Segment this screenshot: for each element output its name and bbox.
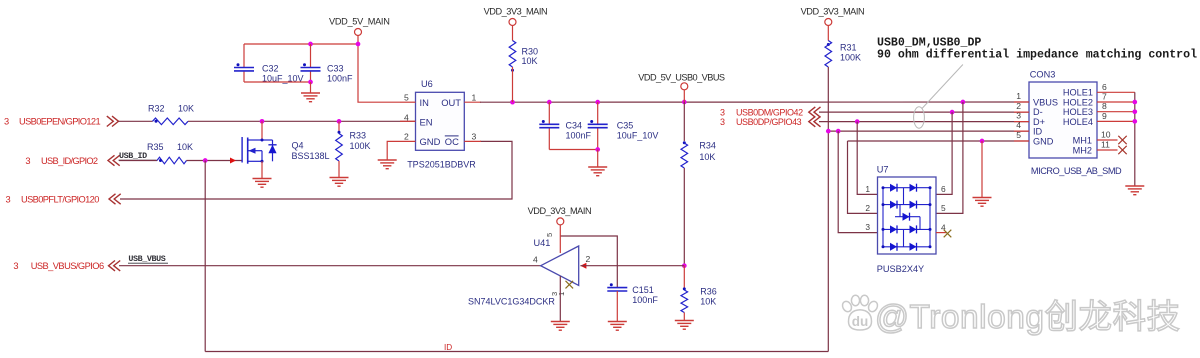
- ground U6: [378, 160, 397, 169]
- junction USB_ID node: [203, 158, 208, 163]
- ground C32/C33: [301, 93, 320, 102]
- wire USB0DM to CON3 D-: [819, 111, 1029, 113]
- diff-pair ellipse: [914, 107, 925, 128]
- no-connect U41 pin1: [566, 281, 574, 289]
- svg-text:GND: GND: [1033, 136, 1054, 146]
- wire ID row to CON3: [828, 130, 1029, 132]
- svg-text:3: 3: [4, 116, 9, 126]
- pin CON3 3 stub: [1014, 121, 1029, 123]
- pin CON3 MH1 stub: [1097, 139, 1118, 141]
- ground Q4: [253, 179, 272, 188]
- wire cap top bus: [244, 43, 358, 45]
- wire ID to U7 pin3: [838, 131, 877, 233]
- transistor Q4: [241, 137, 243, 163]
- junction cap bottom: [308, 80, 313, 85]
- pin U6 IN stub: [400, 101, 416, 103]
- junction C34: [547, 100, 552, 105]
- svg-text:du: du: [852, 314, 869, 329]
- svg-text:D+: D+: [1033, 117, 1045, 127]
- svg-text:R34: R34: [699, 140, 716, 150]
- svg-text:USB0DM/GPIO42: USB0DM/GPIO42: [736, 108, 803, 118]
- svg-text:VDD_3V3_MAIN: VDD_3V3_MAIN: [484, 7, 548, 17]
- ground C151: [608, 322, 627, 331]
- svg-text:USB0PFLT/GPIO120: USB0PFLT/GPIO120: [21, 195, 99, 205]
- svg-text:10K: 10K: [699, 152, 715, 162]
- wire Q4 source to ground: [261, 161, 263, 178]
- svg-text:BSS138L: BSS138L: [292, 151, 330, 161]
- svg-text:5: 5: [545, 233, 554, 237]
- svg-text:GND: GND: [420, 136, 441, 147]
- svg-text:100nF: 100nF: [327, 74, 353, 84]
- pin arrow U41 input: [580, 263, 586, 269]
- junction C35 bottom: [595, 147, 600, 152]
- svg-text:3: 3: [865, 222, 870, 232]
- svg-text:EN: EN: [420, 117, 433, 128]
- wire VDD_5V_MAIN down to U6 IN: [358, 36, 400, 103]
- svg-text:1: 1: [865, 184, 870, 194]
- wire DM to U7 pin6: [936, 112, 952, 194]
- resistor R30: [512, 26, 514, 41]
- svg-text:U41: U41: [534, 238, 551, 248]
- svg-text:R35: R35: [147, 142, 164, 152]
- wire GND to U7 pin2: [848, 141, 878, 213]
- svg-text:2: 2: [865, 203, 870, 213]
- svg-text:USB0_DM,USB0_DP: USB0_DM,USB0_DP: [877, 36, 981, 49]
- pin CON3 MH2 stub: [1097, 149, 1118, 151]
- svg-text:HOLE3: HOLE3: [1063, 107, 1093, 117]
- wire C34 leads: [548, 102, 550, 124]
- svg-text:100K: 100K: [840, 53, 861, 63]
- svg-text:3: 3: [6, 195, 11, 205]
- svg-text:@Tronlong创龙科技: @Tronlong创龙科技: [875, 299, 1180, 336]
- capacitor C32: [234, 67, 254, 69]
- wire U6 OUT to CON3 VBUS: [480, 101, 1029, 103]
- resistor R33: [338, 121, 340, 133]
- resistor R36: [683, 266, 685, 289]
- capacitor C33: [301, 67, 321, 69]
- pin U41 vcc stub: [559, 225, 561, 253]
- pin U41 gnd: [559, 276, 561, 321]
- svg-text:90 ohm differential impedance: 90 ohm differential impedance matching c…: [877, 49, 1197, 62]
- wire GND row to CON3: [848, 140, 1030, 142]
- wire HOLE3: [1097, 111, 1135, 113]
- svg-text:D-: D-: [1033, 107, 1043, 117]
- capacitor C34: [539, 123, 559, 125]
- svg-text:VDD_3V3_MAIN: VDD_3V3_MAIN: [528, 206, 592, 216]
- wire ID riser right: [827, 131, 829, 351]
- no-connect U7 pin4: [944, 230, 952, 238]
- svg-text:HOLE1: HOLE1: [1063, 88, 1093, 98]
- svg-text:USB_VBUS/GPIO6: USB_VBUS/GPIO6: [31, 261, 104, 271]
- wire USB_ID to R35: [119, 160, 157, 162]
- wire R35 to Q4 gate: [187, 160, 243, 162]
- no-connect MH1: [1118, 136, 1126, 144]
- svg-text:MICRO_USB_AB_SMD: MICRO_USB_AB_SMD: [1031, 166, 1122, 176]
- svg-text:USB0EPEN/GPIO121: USB0EPEN/GPIO121: [19, 116, 100, 126]
- pin arrow Q4 gate: [230, 158, 236, 164]
- pin CON3 5 stub: [1014, 140, 1029, 142]
- svg-text:6: 6: [941, 184, 946, 194]
- no-connect MH2: [1118, 146, 1126, 154]
- wire U41 input: [580, 265, 684, 267]
- junction hole3: [1132, 109, 1137, 114]
- svg-text:OC: OC: [445, 136, 459, 147]
- svg-text:100K: 100K: [350, 141, 371, 151]
- wire USB_VBUS to U41 out: [119, 265, 541, 267]
- resistor R34: [683, 102, 685, 141]
- pin U6 OC stub: [464, 140, 481, 142]
- ground C34/C35: [588, 167, 607, 176]
- pin CON3 2 stub: [1014, 111, 1029, 113]
- wire U41 VCC: [560, 236, 617, 288]
- svg-text:ID: ID: [1033, 127, 1043, 137]
- svg-text:1: 1: [557, 292, 566, 296]
- svg-text:USB_ID: USB_ID: [119, 151, 147, 161]
- junction C35: [595, 100, 600, 105]
- junction CON3 gnd: [980, 139, 985, 144]
- svg-text:11: 11: [1101, 140, 1110, 150]
- svg-text:HOLE2: HOLE2: [1063, 97, 1093, 107]
- svg-text:SN74LVC1G34DCKR: SN74LVC1G34DCKR: [468, 296, 555, 306]
- junction VBUS power: [682, 100, 687, 105]
- wire HOLE2: [1097, 101, 1135, 103]
- svg-text:100nF: 100nF: [632, 295, 658, 305]
- svg-text:PUSB2X4Y: PUSB2X4Y: [877, 264, 925, 274]
- junction Q4 drain: [260, 119, 265, 124]
- svg-text:MH1: MH1: [1073, 135, 1092, 145]
- ground R33: [330, 178, 349, 187]
- svg-text:6: 6: [1102, 82, 1107, 92]
- wire Q4 drain riser: [261, 121, 263, 140]
- svg-text:OUT: OUT: [441, 97, 461, 108]
- svg-text:C151: C151: [632, 285, 654, 295]
- svg-text:7: 7: [1102, 92, 1107, 102]
- junction R33 top: [337, 119, 342, 124]
- wire to ground C35: [597, 150, 599, 167]
- svg-text:3: 3: [472, 132, 477, 142]
- svg-text:Q4: Q4: [292, 141, 304, 151]
- svg-text:10: 10: [1101, 130, 1111, 140]
- wire to ground C33: [310, 82, 312, 93]
- wire ID vertical drop: [204, 161, 206, 352]
- junction R30: [510, 100, 515, 105]
- junction R34/R36/U41: [682, 263, 687, 268]
- ground U41: [551, 322, 570, 331]
- svg-text:3: 3: [13, 261, 18, 271]
- svg-text:3: 3: [720, 117, 725, 127]
- svg-text:10K: 10K: [522, 56, 538, 66]
- connector CON3 MICRO_USB_AB_SMD: [1029, 82, 1097, 158]
- svg-text:R33: R33: [350, 130, 367, 140]
- wire cap bottom bus: [244, 81, 311, 83]
- svg-text:U7: U7: [877, 165, 889, 175]
- svg-text:R32: R32: [148, 104, 165, 114]
- wire C32 leads: [243, 44, 245, 68]
- pin U6 GND stub: [387, 141, 415, 159]
- wire ID bottom run: [205, 351, 828, 353]
- svg-text:C33: C33: [327, 64, 344, 74]
- junction hole2: [1132, 100, 1137, 105]
- wire DP to U7 pin1: [857, 122, 877, 195]
- junction DM to U7: [950, 110, 955, 115]
- svg-text:C32: C32: [262, 64, 279, 74]
- svg-text:1: 1: [472, 93, 477, 103]
- ground CON3: [973, 198, 992, 207]
- svg-text:5: 5: [404, 93, 409, 103]
- junction ID riser: [826, 129, 831, 134]
- wire USB0DP to CON3 D+: [819, 121, 1029, 123]
- capacitor C35: [588, 123, 608, 125]
- resistor R32: [153, 118, 189, 125]
- svg-text:ID: ID: [444, 343, 452, 352]
- junction VDD-caps: [356, 42, 361, 47]
- svg-text:10uF_10V: 10uF_10V: [617, 131, 659, 141]
- svg-text:R31: R31: [840, 42, 857, 52]
- wire HOLE4: [1097, 120, 1135, 122]
- pin CON3 1 stub: [1014, 101, 1029, 103]
- pin CON3 4 stub: [1014, 130, 1029, 132]
- wire VBUS to U7 pin5: [936, 102, 963, 213]
- svg-text:R30: R30: [522, 46, 539, 56]
- svg-text:R36: R36: [700, 286, 717, 296]
- watermark Tronlong: [841, 295, 879, 330]
- svg-text:IN: IN: [420, 97, 429, 108]
- wire hole rail: [1134, 92, 1136, 185]
- pin U6 OUT stub: [464, 101, 481, 103]
- wire USB0EPEN to R32: [119, 120, 153, 122]
- svg-text:C34: C34: [566, 121, 583, 131]
- svg-text:VDD_5V_MAIN: VDD_5V_MAIN: [329, 16, 390, 26]
- svg-text:100nF: 100nF: [566, 131, 592, 141]
- wire HOLE1: [1097, 91, 1135, 93]
- diode array U7 PUSB2X4Y: [878, 177, 937, 254]
- svg-text:USB0DP/GPIO43: USB0DP/GPIO43: [736, 117, 802, 127]
- ground R36: [675, 321, 694, 330]
- svg-text:10K: 10K: [178, 104, 194, 114]
- svg-text:4: 4: [533, 255, 538, 265]
- junction ID to U41: [836, 129, 841, 134]
- svg-text:USB_ID/GPIO2: USB_ID/GPIO2: [41, 156, 98, 166]
- svg-text:MH2: MH2: [1073, 145, 1092, 155]
- junction U7 VBUS riser: [961, 100, 966, 105]
- junction hole4: [1132, 119, 1137, 124]
- wire USB0PFLT to U6 OC: [120, 141, 512, 199]
- svg-text:USB_VBUS: USB_VBUS: [128, 254, 165, 264]
- svg-text:VBUS: VBUS: [1033, 97, 1058, 107]
- svg-text:U6: U6: [421, 79, 433, 89]
- wire gnd drop: [981, 141, 983, 197]
- svg-text:TPS2051BDBVR: TPS2051BDBVR: [407, 160, 476, 170]
- op-amp U41 buffer: [541, 246, 579, 285]
- resistor R35: [157, 157, 187, 164]
- junction DP to U7: [855, 119, 860, 124]
- wire C35 leads: [597, 102, 599, 124]
- svg-text:2: 2: [586, 254, 591, 264]
- wire power to bus: [683, 90, 685, 102]
- svg-text:8: 8: [1102, 101, 1107, 111]
- svg-text:9: 9: [1102, 111, 1107, 121]
- svg-text:3: 3: [720, 108, 725, 118]
- wire R32 to U6 EN: [188, 120, 416, 122]
- wire C151 to ground: [616, 291, 618, 321]
- wire C33 leads: [310, 44, 312, 68]
- svg-text:2: 2: [404, 132, 409, 142]
- svg-text:VDD_3V3_MAIN: VDD_3V3_MAIN: [801, 7, 865, 17]
- wire C34-C35 bottom: [549, 149, 597, 151]
- svg-text:VDD_5V_USB0_VBUS: VDD_5V_USB0_VBUS: [638, 72, 725, 82]
- svg-text:10K: 10K: [700, 297, 716, 307]
- op-amp U6 TPS2051BDBVR: [416, 92, 465, 150]
- svg-text:10K: 10K: [177, 142, 193, 152]
- ground holes: [1125, 186, 1144, 195]
- svg-text:HOLE4: HOLE4: [1063, 117, 1093, 127]
- pin U6 EN stub: [400, 120, 416, 122]
- svg-text:CON3: CON3: [1030, 70, 1056, 80]
- svg-text:5: 5: [941, 203, 946, 213]
- capacitor C151: [607, 287, 627, 289]
- svg-text:3: 3: [25, 156, 30, 166]
- svg-text:1: 1: [1016, 91, 1021, 101]
- pin U7 4 stub: [936, 232, 946, 234]
- junction C33 top: [308, 42, 313, 47]
- resistor R31: [827, 26, 829, 41]
- svg-text:C35: C35: [617, 121, 634, 131]
